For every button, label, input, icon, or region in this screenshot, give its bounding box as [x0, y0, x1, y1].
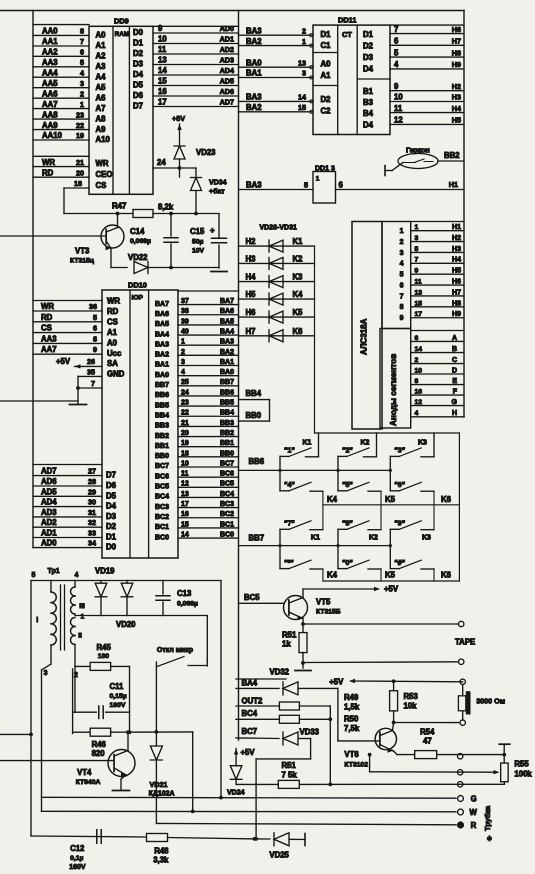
svg-text:2: 2 [400, 239, 404, 246]
svg-text:35: 35 [87, 367, 95, 376]
svg-text:H5: H5 [452, 116, 461, 125]
svg-text:K5: K5 [385, 495, 396, 504]
svg-text:H9: H9 [452, 60, 461, 69]
svg-text:19: 19 [181, 440, 189, 447]
svg-text:4: 4 [181, 369, 185, 376]
wire VT3 emitter [106, 241, 111, 249]
svg-text:AA6: AA6 [42, 89, 58, 98]
svg-text:47: 47 [423, 737, 432, 746]
svg-text:AA10: AA10 [42, 131, 63, 140]
svg-text:R45: R45 [97, 643, 112, 652]
svg-text:8: 8 [415, 378, 419, 385]
svg-text:BA4: BA4 [155, 331, 169, 338]
wire BB4 pin 22 of DD10 [178, 415, 239, 417]
wire keypad top rail [315, 432, 460, 434]
wire AA4 pin 4 [33, 76, 89, 78]
svg-text:BC4: BC4 [242, 709, 258, 718]
svg-text:BA1: BA1 [220, 359, 234, 366]
svg-text:R49: R49 [344, 693, 359, 702]
wire BC6 pin 11 of DD10 [178, 476, 239, 478]
wire K6 contact vertical [433, 491, 435, 529]
svg-text:7: 7 [400, 293, 404, 300]
svg-text:AA2: AA2 [42, 48, 58, 57]
svg-text:0,15µ: 0,15µ [110, 693, 127, 700]
svg-text:K3: K3 [293, 273, 304, 282]
wire BC3 pin 17 of DD10 [178, 507, 239, 509]
switch key “2” row1 [338, 455, 347, 457]
svg-text:BB5: BB5 [155, 402, 169, 409]
svg-text:A1: A1 [96, 41, 107, 50]
svg-text:AA0: AA0 [42, 27, 58, 36]
svg-text:VD26-VD31: VD26-VD31 [260, 225, 297, 232]
svg-text:14: 14 [158, 66, 167, 75]
wire keypad right bus [458, 433, 460, 581]
svg-text:BB2: BB2 [155, 433, 169, 440]
svg-text:C1: C1 [321, 41, 332, 50]
svg-text:20: 20 [181, 430, 189, 437]
svg-text:26: 26 [87, 357, 95, 366]
svg-text:11: 11 [158, 45, 167, 54]
svg-text:WR: WR [41, 302, 54, 311]
svg-text:D1: D1 [133, 39, 144, 48]
svg-text:H6: H6 [246, 308, 257, 317]
wire left bus from pin 5 [30, 581, 32, 837]
wire H4 from DD11 pin 11 [390, 112, 464, 114]
svg-text:DD9: DD9 [114, 17, 129, 26]
svg-text:R48: R48 [154, 847, 169, 856]
svg-text:КТ940А: КТ940А [76, 779, 101, 786]
wire BC4 pin 13 of DD10 [178, 496, 239, 498]
wire BA4 ladder top rung [236, 678, 286, 680]
svg-text:H9: H9 [452, 311, 461, 318]
switch key “0” row4 [338, 568, 347, 570]
svg-text:BA3: BA3 [246, 93, 262, 102]
svg-text:3: 3 [302, 69, 306, 78]
svg-text:BB3: BB3 [220, 420, 234, 427]
wire DD10 right ladder top rung [178, 290, 239, 292]
wire BA2 to DD11 pin 1 [239, 45, 314, 47]
svg-text:D6: D6 [106, 481, 117, 490]
svg-text:180: 180 [98, 653, 110, 660]
switch key “6” row2 [390, 490, 399, 492]
svg-text:4: 4 [415, 410, 419, 417]
svg-text:24: 24 [157, 158, 166, 167]
wire key “7” stub to BB7 [279, 529, 281, 568]
svg-text:5: 5 [415, 246, 419, 253]
wire K5 contact vertical [380, 491, 382, 529]
svg-text:AA8: AA8 [42, 110, 58, 119]
svg-text:1k: 1k [282, 640, 291, 649]
svg-text:C14: C14 [130, 227, 145, 236]
wire H5 display pin 9 [411, 273, 464, 275]
svg-text:A7: A7 [96, 104, 106, 113]
wire AA7 pin 1 [33, 108, 89, 110]
svg-text:K4: K4 [327, 495, 338, 504]
svg-text:BC5: BC5 [155, 484, 169, 491]
svg-text:40: 40 [181, 328, 189, 335]
svg-text:H6: H6 [452, 25, 461, 34]
wire segment G pin 12 [411, 405, 464, 407]
svg-text:VD25: VD25 [269, 851, 289, 860]
svg-text:AD2: AD2 [220, 45, 234, 54]
svg-text:7: 7 [415, 257, 419, 264]
wire AA10 pin 19 [33, 139, 89, 141]
svg-text:D5: D5 [106, 491, 117, 500]
svg-text:R51: R51 [282, 631, 297, 640]
svg-text:+5V: +5V [384, 585, 399, 594]
svg-text:AA9: AA9 [42, 121, 58, 130]
svg-text:9: 9 [93, 345, 97, 354]
svg-text:6: 6 [80, 48, 84, 57]
svg-text:K2: K2 [293, 254, 304, 263]
svg-text:BB1: BB1 [155, 443, 169, 450]
svg-text:H4: H4 [452, 257, 461, 264]
wire pin 24 of DD9 [153, 167, 196, 169]
svg-text:R55: R55 [514, 760, 529, 769]
wire left address bus [32, 11, 34, 548]
diode VD23 [174, 146, 185, 159]
svg-text:D2: D2 [133, 49, 144, 58]
svg-text:H2: H2 [452, 235, 461, 242]
svg-text:OUT2: OUT2 [242, 696, 263, 705]
svg-text:BC7: BC7 [242, 727, 258, 736]
svg-text:“*”: “*” [284, 560, 294, 567]
svg-text:A9: A9 [96, 125, 107, 134]
wire AD6 pin 28 of DD10 [33, 485, 102, 487]
svg-text:0,068µ: 0,068µ [177, 601, 198, 608]
svg-text:D1: D1 [106, 533, 117, 542]
wire bottom C12-R48 line [31, 836, 146, 837]
svg-text:Аноды сегментов: Аноды сегментов [389, 354, 398, 426]
svg-text:+5V: +5V [172, 114, 185, 123]
svg-text:18: 18 [74, 179, 82, 188]
wire segment A pin 6 [411, 340, 464, 342]
svg-text:CEO: CEO [96, 170, 113, 179]
svg-text:K4: K4 [293, 290, 304, 299]
wire key “3” stub to BB6 [389, 456, 391, 490]
svg-text:32: 32 [88, 518, 96, 527]
svg-text:WR: WR [107, 297, 120, 306]
svg-text:A0: A0 [96, 31, 107, 40]
svg-text:VT5: VT5 [316, 598, 331, 607]
wire VT3 collector [106, 228, 117, 233]
svg-text:A6: A6 [96, 93, 107, 102]
wire H1 from DD13 pin 6 [336, 189, 465, 191]
svg-text:C13: C13 [177, 589, 192, 598]
wire key bottom contact vertical [433, 569, 435, 581]
svg-text:AD0: AD0 [220, 24, 234, 33]
svg-text:BC5: BC5 [244, 593, 260, 602]
svg-text:13: 13 [181, 491, 189, 498]
svg-text:BA0: BA0 [155, 372, 169, 379]
wire segment H pin 4 [411, 416, 464, 418]
capacitor C12 0,1u 160V [97, 830, 101, 844]
svg-text:AD1: AD1 [220, 35, 234, 44]
svg-text:AD4: AD4 [220, 66, 234, 75]
svg-text:7,5k: 7,5k [344, 724, 360, 733]
wire AA6 pin 2 [33, 97, 89, 99]
svg-text:B1: B1 [363, 87, 374, 96]
wire VT6 collector [380, 731, 393, 736]
svg-text:17: 17 [181, 501, 189, 508]
svg-text:VD24: VD24 [227, 790, 245, 797]
svg-text:D7: D7 [133, 102, 143, 111]
svg-text:G: G [452, 399, 458, 406]
svg-text:10: 10 [181, 460, 189, 467]
wire BA0 pin 4 of DD10 [178, 375, 239, 377]
diode VD27 on H3-K2 row [239, 262, 315, 264]
svg-text:3: 3 [80, 79, 84, 88]
svg-text:BA7: BA7 [220, 298, 234, 305]
svg-text:D0: D0 [133, 28, 144, 37]
svg-text:H5: H5 [246, 290, 257, 299]
svg-text:R51: R51 [282, 761, 297, 770]
svg-text:BC1: BC1 [155, 524, 169, 531]
svg-text:K6: K6 [293, 327, 304, 336]
svg-text:33: 33 [88, 529, 96, 538]
svg-text:H2: H2 [246, 237, 257, 246]
svg-text:22: 22 [181, 410, 189, 417]
wire G riser [220, 581, 222, 798]
switch key “4” row2 [280, 490, 289, 492]
wire input from left to bus [0, 733, 31, 735]
diode VD21 КД102А [155, 732, 157, 746]
svg-text:H7: H7 [452, 37, 461, 46]
svg-text:BA2: BA2 [246, 103, 262, 112]
svg-text:BB1: BB1 [220, 440, 234, 447]
svg-text:K3: K3 [418, 440, 427, 447]
svg-text:22: 22 [76, 121, 84, 130]
wire H ladder top rung [390, 24, 464, 26]
svg-text:6: 6 [394, 37, 399, 46]
wire AA7 pin 9 of DD10 [33, 353, 102, 355]
svg-text:Трубка: Трубка [483, 805, 492, 831]
svg-text:18: 18 [181, 450, 189, 457]
svg-text:BA0: BA0 [246, 58, 262, 67]
transformer winding I [50, 581, 52, 593]
svg-text:25: 25 [181, 379, 189, 386]
svg-text:11: 11 [181, 471, 189, 478]
svg-text:A10: A10 [96, 135, 111, 144]
svg-text:0,068µ: 0,068µ [130, 238, 151, 245]
svg-text:10: 10 [394, 93, 403, 102]
svg-text:“8”: “8” [342, 521, 353, 528]
svg-text:6: 6 [400, 282, 404, 289]
wire AA0 pin 8 [33, 34, 89, 36]
power +5V to VT5 collector [303, 588, 378, 590]
svg-text:14: 14 [415, 346, 423, 353]
svg-text:D4: D4 [363, 121, 374, 130]
svg-text:K2: K2 [361, 440, 370, 447]
wire AD1 pin 10 [153, 43, 239, 45]
wire H9 from DD11 pin 4 [390, 68, 464, 70]
svg-text:1: 1 [400, 228, 404, 235]
wire BA4 drop to VT6 base [337, 688, 339, 741]
svg-text:II: II [78, 633, 82, 640]
svg-text:BA4: BA4 [242, 679, 258, 688]
svg-text:10V: 10V [192, 248, 205, 255]
svg-text:8: 8 [400, 304, 404, 311]
svg-text:13: 13 [415, 289, 423, 296]
svg-text:K6: K6 [441, 571, 452, 580]
svg-text:A0: A0 [321, 60, 332, 69]
svg-text:AD4: AD4 [41, 498, 57, 507]
svg-text:R47: R47 [112, 202, 126, 211]
wire AD0 pin 34 of DD10 [33, 547, 102, 549]
wire segment ladder top rung [411, 330, 464, 332]
svg-text:12: 12 [394, 116, 403, 125]
wire K2 column drop [376, 433, 378, 457]
svg-text:+бат: +бат [209, 188, 225, 196]
svg-text:K2: K2 [369, 535, 378, 542]
svg-text:H3: H3 [452, 93, 461, 102]
wire R45 to C11 joining vertical [129, 666, 131, 732]
svg-text:AD3: AD3 [220, 56, 234, 65]
svg-text:RD: RD [42, 168, 54, 177]
IC АЛС318А display [352, 222, 382, 430]
svg-text:D: D [452, 367, 457, 374]
svg-text:6: 6 [339, 181, 344, 190]
wire W line [42, 810, 457, 813]
wire AA ladder top rung [33, 24, 89, 26]
svg-text:H3: H3 [452, 246, 461, 253]
wire H3 from DD11 pin 10 [390, 101, 464, 103]
ground of DD10 [76, 386, 80, 390]
svg-text:9: 9 [400, 315, 404, 322]
wire OUT2 drop [329, 706, 331, 784]
svg-text:8: 8 [80, 27, 84, 36]
wire VT5 collector [289, 598, 303, 604]
wire H6 display pin 11 [411, 284, 464, 286]
svg-text:0,1µ: 0,1µ [70, 855, 83, 862]
svg-text:H6: H6 [452, 279, 461, 286]
wire GND pin 7 [78, 387, 102, 389]
wire BB2 pin 20 of DD10 [178, 436, 239, 438]
svg-text:R: R [471, 821, 477, 830]
wire BA2 to DD11 pin 15 [239, 111, 314, 113]
svg-text:3,3k: 3,3k [153, 856, 169, 865]
svg-text:VD19: VD19 [95, 567, 115, 576]
svg-text:160V: 160V [110, 702, 126, 709]
wire right H bus [463, 11, 465, 418]
svg-text:K5: K5 [385, 571, 396, 580]
svg-text:D1: D1 [321, 30, 332, 39]
svg-text:1: 1 [302, 37, 306, 46]
svg-text:D1: D1 [363, 30, 374, 39]
svg-text:VD22: VD22 [128, 253, 148, 262]
wire BC1 pin 15 of DD10 [178, 527, 239, 529]
svg-text:D2: D2 [363, 42, 374, 51]
wire VT6 emitter tap to R55 wiper [369, 755, 371, 772]
svg-text:VD34: VD34 [209, 180, 227, 187]
svg-text:1,5k: 1,5k [344, 703, 360, 712]
svg-text:K1: K1 [293, 237, 304, 246]
svg-text:28: 28 [88, 477, 96, 486]
wire H2 from DD11 pin 9 [390, 90, 464, 92]
svg-text:BB6: BB6 [155, 392, 169, 399]
svg-text:1: 1 [415, 224, 419, 231]
svg-text:“7”: “7” [284, 521, 295, 528]
svg-text:D2: D2 [321, 95, 332, 104]
wire CS pin 18 of DD9 [64, 187, 89, 189]
svg-text:H5: H5 [452, 268, 461, 275]
wire H7 from DD11 pin 6 [390, 44, 464, 46]
svg-text:КТ315Б: КТ315Б [316, 609, 341, 616]
svg-text:“4”: “4” [284, 482, 295, 489]
svg-text:H7: H7 [452, 289, 461, 296]
wire winding I to pin 3 [50, 645, 52, 664]
wire H3 display pin 5 [411, 251, 464, 253]
svg-text:BB7: BB7 [249, 534, 265, 543]
wire WR pin 36 of DD10 [33, 310, 102, 312]
svg-text:AD0: AD0 [41, 539, 57, 548]
wire AD7 pin 17 [153, 106, 239, 108]
wire digit ladder top rung [411, 221, 464, 223]
wire segment D pin 10 [411, 373, 464, 375]
svg-text:16: 16 [158, 87, 167, 96]
wire K3 column drop [433, 433, 435, 457]
wire key bottom contact vertical [380, 569, 382, 581]
transistor VT3 КТ315 [101, 225, 124, 248]
svg-text:21: 21 [76, 158, 84, 167]
svg-text:3: 3 [415, 235, 419, 242]
svg-text:30: 30 [88, 498, 96, 507]
svg-text:H1: H1 [449, 180, 458, 189]
wire AD ladder top rung [153, 25, 239, 27]
svg-text:BA5: BA5 [155, 321, 169, 328]
svg-text:GND: GND [107, 370, 125, 379]
svg-text:H8: H8 [452, 300, 461, 307]
wire BA0 to DD11 pin 13 [239, 66, 314, 68]
svg-text:КТ315ц: КТ315ц [70, 258, 95, 265]
svg-text:23: 23 [181, 400, 189, 407]
svg-text:BA5: BA5 [220, 318, 234, 325]
svg-text:8,2k: 8,2k [158, 203, 174, 212]
wire VT5 emitter [289, 612, 303, 619]
wire BC7 L-path down [310, 739, 312, 759]
svg-text:“0”: “0” [342, 560, 353, 567]
svg-text:RD: RD [41, 313, 53, 322]
svg-text:BA2: BA2 [246, 37, 262, 46]
svg-text:K1: K1 [311, 535, 320, 542]
svg-text:27: 27 [88, 467, 96, 476]
svg-text:IOP: IOP [132, 295, 144, 302]
wire H4 display pin 7 [411, 262, 464, 264]
speaker 3000 Ом [460, 679, 465, 684]
svg-text:AA7: AA7 [42, 100, 58, 109]
wire AD4 pin 30 of DD10 [33, 506, 102, 508]
svg-text:4: 4 [80, 68, 84, 77]
wire H8 display pin 15 [411, 306, 464, 308]
svg-text:AA3: AA3 [41, 334, 57, 343]
diode VD30 on H6-K5 row [239, 316, 315, 318]
wire BA3 pin 1 of DD10 [178, 344, 239, 346]
wire key “1” stub to BB6 [279, 456, 281, 490]
wire AD1 pin 33 of DD10 [33, 537, 102, 539]
svg-text:34: 34 [88, 539, 96, 548]
svg-text:D0: D0 [106, 543, 117, 552]
svg-text:BC0: BC0 [220, 531, 234, 538]
svg-text:АЛС318А: АЛС318А [360, 318, 369, 355]
svg-text:1: 1 [181, 339, 185, 346]
svg-text:+5V: +5V [329, 678, 344, 687]
wire key “9” stub to BB7 [389, 529, 391, 568]
switch key “1” row1 [280, 455, 289, 457]
svg-text:BA2: BA2 [220, 349, 234, 356]
svg-text:B: B [452, 346, 457, 353]
svg-text:AD5: AD5 [220, 77, 234, 86]
svg-text:BB0: BB0 [155, 453, 169, 460]
